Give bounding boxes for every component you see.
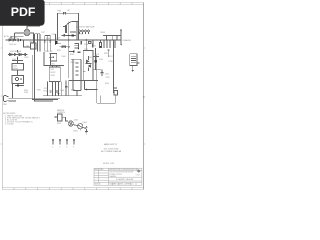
diode D909: [78, 44, 79, 50]
transistor Q903: [78, 124, 83, 129]
wire: [114, 87, 118, 89]
wire top rail: [57, 12, 78, 14]
wire: [30, 33, 34, 43]
wire: [12, 84, 14, 99]
svg-text:R904: R904: [30, 42, 34, 44]
svg-text:CONTROL: CONTROL: [57, 112, 65, 114]
sheet border frame (decorative): [1, 2, 145, 190]
svg-text:COLOR TELEVISION RECEIVER: COLOR TELEVISION RECEIVER: [109, 172, 134, 174]
wire loop right: [35, 52, 54, 102]
wire: [17, 70, 19, 76]
diode D904: [50, 57, 52, 59]
capacitor C910: [63, 22, 71, 33]
junction dots rail: [68, 35, 69, 48]
wire: [77, 13, 79, 40]
junction: [58, 93, 60, 95]
connector J901: [79, 30, 90, 34]
diode D903: [69, 34, 76, 36]
svg-text:C915 222: C915 222: [45, 51, 52, 53]
wire drops: [103, 40, 105, 48]
wire: [56, 13, 58, 40]
box component X901: [31, 43, 37, 49]
wire: [69, 80, 98, 82]
title block table: [94, 168, 142, 185]
wire pin: [107, 50, 109, 57]
transformer T901 core: [73, 59, 81, 90]
transistor Q902: [55, 41, 57, 44]
wire: [26, 26, 28, 29]
diode D911: [100, 46, 101, 48]
degauss stub: [15, 85, 24, 87]
capacitor C917: [65, 87, 67, 88]
wire: [79, 129, 81, 131]
ground: [85, 132, 88, 134]
relay box RL901: [12, 76, 24, 84]
svg-text:3: 3: [66, 147, 67, 149]
wire: [103, 34, 121, 36]
wire: [15, 32, 25, 34]
wire: [27, 25, 40, 27]
primary rail: [68, 22, 70, 66]
svg-text:LOGO: LOGO: [136, 174, 141, 176]
coil L902: [130, 54, 140, 70]
wire: [96, 55, 98, 103]
snubber loop: [44, 52, 64, 66]
transistor Q901: [68, 121, 73, 126]
wire: [70, 31, 76, 33]
svg-text:IC901: IC901: [51, 75, 56, 77]
svg-text:C918: C918: [109, 61, 113, 63]
svg-text:1/1: 1/1: [131, 184, 133, 186]
pin 1: [52, 139, 54, 144]
svg-text:C908: C908: [37, 89, 41, 91]
capacitor C915: [52, 56, 54, 57]
resistor R906: [75, 44, 80, 49]
notes text block: [3, 113, 41, 126]
wire: [93, 69, 101, 71]
svg-text:D901 D902: D901 D902: [9, 38, 18, 40]
wire: [12, 60, 23, 62]
wire: [45, 34, 51, 36]
capacitor C951: [101, 70, 104, 76]
svg-text:4: 4: [73, 147, 74, 149]
svg-text:C909: C909: [24, 92, 28, 94]
logo mark: [137, 169, 141, 172]
svg-text:C919: C919: [99, 59, 103, 61]
vertical mesh wires: [34, 34, 36, 52]
tiny text smudges: component labels: [3, 9, 132, 149]
svg-text:Q901: Q901: [74, 120, 78, 122]
wire stub: [71, 21, 78, 23]
svg-text:C904: C904: [60, 90, 64, 92]
diode D902: [13, 39, 15, 41]
svg-text:R912: R912: [44, 90, 48, 92]
svg-text:1: 1: [52, 147, 53, 149]
svg-text:T901: T901: [84, 49, 88, 51]
wire: [10, 36, 12, 40]
svg-text:R917: R917: [109, 56, 113, 58]
wire: [24, 40, 31, 47]
wire: [11, 35, 24, 37]
diode D952: [95, 48, 97, 70]
wire: [49, 53, 56, 61]
box component X904: [54, 114, 62, 121]
ground bus: [43, 95, 82, 97]
capacitor C902: [12, 64, 24, 71]
capacitor C914: [62, 34, 69, 36]
capacitor C906: [80, 41, 81, 45]
wire: [14, 33, 16, 40]
wire: [93, 56, 99, 58]
arrow: [86, 126, 88, 128]
wire: [83, 127, 87, 128]
pin 3: [66, 139, 68, 144]
svg-text:MAIN SUPPLY: MAIN SUPPLY: [104, 143, 118, 146]
svg-text:AC OUTLET MAX 200W: AC OUTLET MAX 200W: [76, 26, 95, 29]
svg-text:R905: R905: [70, 54, 74, 56]
svg-text:C952: C952: [106, 77, 110, 79]
resistor R902: [100, 40, 102, 48]
svg-text:PDF: PDF: [11, 5, 36, 19]
svg-text:R921: R921: [57, 123, 61, 125]
wire: [73, 124, 78, 127]
capacitor C952: [78, 51, 81, 52]
svg-text:R2: R2: [27, 46, 29, 48]
diode D912: [73, 51, 75, 53]
svg-text:Q902: Q902: [56, 38, 60, 40]
svg-text:C905: C905: [12, 59, 16, 61]
pin 2: [59, 139, 61, 144]
svg-text:R922: R922: [74, 131, 78, 133]
wire: [17, 57, 19, 64]
wire pins: [47, 82, 49, 96]
connector P901: [4, 96, 9, 102]
line filter L901: [24, 29, 30, 36]
junction: [86, 39, 88, 41]
svg-text:DESCRIPTION OF REVISION RECORD: DESCRIPTION OF REVISION RECORD: [109, 169, 139, 171]
junction dots: [76, 39, 113, 40]
wire loop left: [32, 55, 58, 100]
box component X903: [114, 91, 118, 96]
svg-text:R911: R911: [57, 50, 61, 52]
svg-text:R913: R913: [71, 62, 75, 64]
svg-text:D906: D906: [62, 56, 66, 58]
wire: [9, 97, 61, 99]
svg-text:R908: R908: [46, 38, 50, 40]
bridge rectifier D905: [8, 53, 28, 56]
wire: [113, 40, 115, 93]
capacitor C907: [93, 40, 94, 48]
main supply text: [101, 143, 121, 153]
svg-text:IC901: IC901: [50, 64, 55, 66]
junction: [17, 58, 19, 60]
svg-text:P902: P902: [79, 34, 83, 36]
capacitor C911: [44, 41, 46, 42]
svg-text:C906: C906: [84, 44, 88, 46]
resistor R901: [89, 42, 92, 44]
rectifier block D951: [83, 51, 93, 81]
degauss block: [103, 30, 122, 46]
svg-text:R909: R909: [25, 57, 29, 59]
capacitor C913: [50, 41, 52, 42]
svg-text:R915: R915: [105, 83, 109, 85]
fuse F901: [64, 12, 66, 14]
resistor R903: [60, 46, 69, 48]
capacitor C901: [17, 39, 21, 42]
svg-text:5. R 1/4W.: 5. R 1/4W.: [5, 124, 14, 126]
svg-text:D951: D951: [88, 57, 92, 59]
wire: [17, 50, 19, 53]
svg-text:C917: C917: [41, 32, 45, 34]
capacitor C904: [56, 91, 58, 92]
wire: [68, 66, 70, 79]
svg-text:R914: R914: [71, 89, 75, 91]
svg-text:R916: R916: [95, 54, 99, 56]
svg-text:Q903: Q903: [83, 122, 87, 124]
svg-text:2: 2: [59, 147, 60, 149]
svg-text:DEGAUSS: DEGAUSS: [123, 39, 132, 42]
capacitor C903: [49, 91, 51, 92]
diode D901: [9, 39, 11, 41]
PDF badge: [0, 0, 45, 26]
svg-text:C916 2n2: C916 2n2: [9, 44, 16, 46]
wire: [9, 100, 17, 102]
svg-text:AC POWER 10A/13A: AC POWER 10A/13A: [101, 150, 121, 153]
wire: [44, 52, 64, 66]
svg-text:MODEL 21D3: MODEL 21D3: [103, 163, 114, 165]
svg-text:P951: P951: [104, 53, 108, 55]
svg-text:P901: P901: [3, 104, 7, 106]
posistor TH902: [105, 35, 107, 40]
wire: [76, 22, 78, 40]
svg-text:F901: F901: [58, 10, 62, 12]
svg-text:D905 BRIDGE: D905 BRIDGE: [10, 51, 22, 53]
wire: [85, 129, 87, 132]
wire main bus: [6, 39, 122, 41]
svg-text:107, 220V 50Hz: 107, 220V 50Hz: [104, 148, 119, 150]
wire: [62, 117, 68, 121]
wire: [85, 40, 87, 51]
wire: [58, 43, 62, 45]
ground: [132, 70, 134, 72]
svg-text:R901: R901: [92, 45, 96, 47]
svg-text:TH902: TH902: [100, 32, 105, 34]
svg-text:C951: C951: [105, 74, 109, 76]
wire: [50, 53, 52, 65]
wire: [69, 51, 73, 53]
IC901: [49, 67, 60, 82]
pin 4: [73, 139, 75, 144]
wire: [71, 58, 81, 60]
svg-text:330uF: 330uF: [13, 68, 18, 70]
wire: [35, 33, 40, 35]
svg-text:S6707: S6707: [51, 72, 56, 74]
svg-text:C918: C918: [52, 34, 56, 36]
